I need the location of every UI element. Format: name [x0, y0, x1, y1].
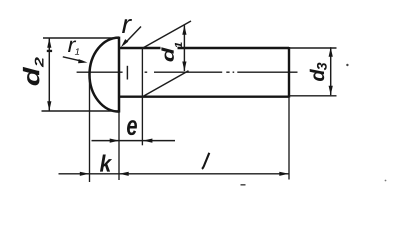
head flat (underhead face)	[118, 37, 121, 113]
dimension d3: label	[310, 63, 327, 81]
dimension d1: lower arrowhead	[182, 62, 186, 72]
centerline (dash-dot axis)	[77, 71, 298, 73]
shank end face	[288, 47, 290, 98]
dimension d1: dimension line	[183, 25, 185, 71]
e right extension / d1 oblique origin line	[141, 48, 143, 145]
head flat extension below (e left / l left)	[118, 113, 120, 181]
dimension k/l: shared arrowhead at underhead line (pointing left)	[119, 172, 129, 176]
speck bottom right	[385, 180, 387, 182]
head radius center tick	[126, 66, 128, 80]
leader r: arrowhead	[121, 39, 128, 47]
k and l common dimension line	[59, 173, 290, 175]
shank top edge left of d1 label	[118, 47, 161, 49]
dimension d1: lower oblique extension line	[142, 71, 188, 97]
head outline arc	[90, 38, 120, 112]
dimension d1: label	[161, 42, 182, 61]
leader r1: leader line	[63, 57, 83, 62]
dimension d3: lower arrowhead	[329, 86, 333, 96]
leader r1: arrowhead	[78, 59, 87, 63]
shank top edge right of d1 label	[178, 47, 290, 49]
dimension d2: lower arrowhead	[47, 101, 51, 111]
leader r1: label	[68, 40, 76, 52]
dimension l: label	[202, 153, 209, 169]
dimension k: label	[100, 155, 112, 172]
dimension d2: label	[23, 57, 44, 85]
dimension d2: top extension line	[43, 37, 119, 39]
speck bottom center	[241, 184, 246, 186]
dimension e: label	[127, 120, 137, 135]
dimension d2: bottom extension line	[42, 110, 120, 112]
dimension d3: bottom extension line	[289, 95, 337, 97]
dimension d3: top extension line	[289, 47, 337, 49]
ink blob on d2 dimension line	[47, 50, 52, 52]
dimension d2: dimension line	[48, 38, 50, 111]
dimension l: right extension line (shank end)	[288, 98, 290, 180]
dimension e: left arrowhead (outside, pointing right)	[110, 139, 120, 143]
dimension d1: upper oblique extension line	[142, 21, 191, 48]
dimension e: dimension line	[92, 140, 176, 142]
dimension d2: upper arrowhead	[47, 38, 51, 48]
dimension e: right arrowhead (outside, pointing left)	[143, 139, 153, 143]
dimension d3: dimension line	[330, 47, 332, 95]
dimension k: left arrowhead (outside, pointing right)	[80, 172, 90, 176]
shank bottom edge	[118, 95, 289, 97]
leader r: label	[122, 19, 132, 33]
leader r: leader line	[124, 27, 141, 45]
dimension d1: upper arrowhead	[182, 25, 186, 35]
dimension d3: upper arrowhead	[329, 47, 333, 57]
speck near d3	[346, 64, 348, 66]
k left extension line (from head apex)	[89, 75, 91, 183]
dimension l: right arrowhead (pointing right)	[279, 172, 289, 176]
